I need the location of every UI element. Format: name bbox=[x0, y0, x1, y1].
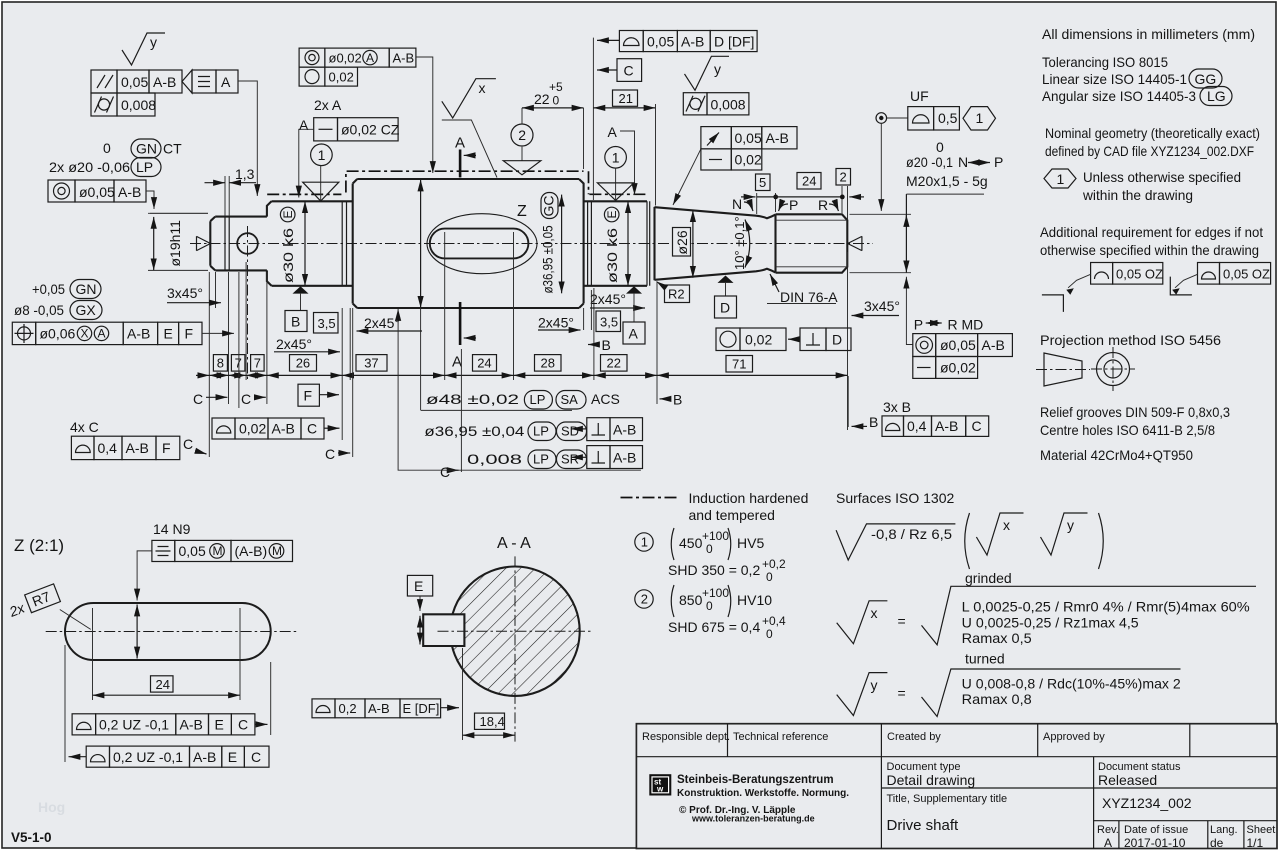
svg-text:U 0,0025-0,25 / Rz1max 4,5: U 0,0025-0,25 / Rz1max 4,5 bbox=[962, 615, 1139, 631]
svg-text:24: 24 bbox=[477, 356, 491, 371]
svg-text:A-B: A-B bbox=[935, 418, 958, 434]
svg-text:C: C bbox=[251, 749, 261, 765]
svg-text:GN: GN bbox=[76, 281, 97, 297]
svg-text:0,05: 0,05 bbox=[179, 543, 206, 559]
svg-text:V5-1-0: V5-1-0 bbox=[11, 830, 52, 845]
svg-text:2: 2 bbox=[518, 127, 526, 143]
svg-text:U 0,008-0,8 / Rdc(10%-45%)max: U 0,008-0,8 / Rdc(10%-45%)max 2 bbox=[962, 676, 1181, 692]
svg-text:Date of issue: Date of issue bbox=[1124, 824, 1188, 836]
svg-text:10° ±0,1°: 10° ±0,1° bbox=[732, 216, 747, 270]
svg-text:Technical reference: Technical reference bbox=[733, 731, 828, 743]
svg-text:Ramax 0,8: Ramax 0,8 bbox=[962, 691, 1032, 707]
datum D box bbox=[715, 296, 737, 318]
keyway notch bbox=[423, 614, 464, 646]
svg-text:GC: GC bbox=[541, 196, 557, 217]
hardened line over dia48 bbox=[346, 171, 589, 194]
svg-text:Konstruktion. Werkstoffe. Norm: Konstruktion. Werkstoffe. Normung. bbox=[677, 788, 849, 799]
svg-text:C: C bbox=[238, 717, 248, 733]
svg-text:B: B bbox=[291, 314, 300, 330]
taper cone edges bbox=[655, 207, 776, 280]
concentricity frame dia0,02 (A) A-B bbox=[299, 48, 325, 67]
svg-text:A: A bbox=[629, 326, 639, 342]
svg-text:A-B: A-B bbox=[193, 749, 216, 765]
dia19h11 dimension bbox=[148, 213, 208, 270]
extension lines above shaft (groove 1,3 / chamfer) bbox=[216, 176, 230, 308]
svg-text:ø19h11: ø19h11 bbox=[167, 220, 183, 267]
svg-text:ø0,06: ø0,06 bbox=[40, 326, 76, 342]
svg-text:E: E bbox=[281, 210, 295, 218]
leader from concentricity frame bbox=[146, 191, 154, 209]
svg-text:L 0,0025-0,25 / Rmr0 4% / Rm: L 0,0025-0,25 / Rmr0 4% / Rmr(5)4max 60% bbox=[962, 599, 1250, 615]
svg-text:ø48 ±0,02: ø48 ±0,02 bbox=[426, 391, 519, 407]
flatness frame 0,008 bbox=[91, 93, 117, 116]
svg-text:0,008: 0,008 bbox=[711, 97, 746, 113]
chain dim box 37 bbox=[356, 355, 387, 372]
svg-text:3,5: 3,5 bbox=[600, 315, 618, 330]
svg-text:0: 0 bbox=[706, 542, 713, 556]
svg-text:defined by CAD file XYZ1234_00: defined by CAD file XYZ1234_002.DXF bbox=[1045, 143, 1254, 159]
svg-text:XYZ1234_002: XYZ1234_002 bbox=[1102, 795, 1192, 811]
svg-text:LP: LP bbox=[530, 392, 546, 407]
svg-text:0: 0 bbox=[553, 94, 560, 108]
centre hole mark right bbox=[848, 236, 862, 251]
flag 1 right: circle bbox=[605, 147, 627, 169]
hardened zone dim 22 +5/0 bbox=[522, 107, 584, 109]
dia48 left face bbox=[353, 179, 358, 308]
svg-text:(A-B): (A-B) bbox=[235, 543, 268, 559]
svg-text:Material 42CrMo4+QT950: Material 42CrMo4+QT950 bbox=[1040, 447, 1193, 463]
dia30 left dim arrows bbox=[304, 201, 306, 285]
svg-text:A-B: A-B bbox=[766, 130, 789, 146]
profile frame 0,2 UZ -0,1 A-B E C (row 2) bbox=[86, 746, 109, 767]
chain dim box 71 bbox=[726, 356, 753, 373]
svg-text:GN: GN bbox=[136, 141, 157, 157]
dia48 dimension vertical bbox=[420, 180, 422, 308]
svg-text:7: 7 bbox=[235, 356, 242, 371]
svg-text:C: C bbox=[972, 418, 982, 434]
svg-text:LG: LG bbox=[1207, 88, 1226, 104]
shaft outline: dia19 segment bbox=[215, 217, 267, 271]
keyway slot detail outline bbox=[65, 603, 271, 660]
svg-text:C: C bbox=[183, 436, 193, 452]
leader from runout frame to taper bbox=[673, 149, 701, 205]
section A-A cut marks bbox=[459, 150, 462, 346]
svg-text:X: X bbox=[81, 327, 89, 341]
concentricity frame dia0,05 A-B bbox=[913, 334, 936, 357]
hexagon flag 1 bbox=[1044, 169, 1076, 188]
leader to slot bbox=[137, 551, 152, 601]
svg-text:ø36,95 ±0,05: ø36,95 ±0,05 bbox=[540, 225, 556, 293]
svg-text:C: C bbox=[307, 421, 317, 437]
surface profile frame 0,05 A-B D [DF] bbox=[597, 39, 619, 41]
perpendicularity frame A-B (2) bbox=[587, 446, 610, 469]
GC oval rotated bbox=[541, 193, 558, 219]
svg-text:E: E bbox=[414, 578, 423, 594]
thread minor lines bbox=[776, 220, 848, 267]
svg-text:0: 0 bbox=[706, 599, 713, 613]
svg-text:A-B: A-B bbox=[681, 34, 704, 50]
svg-text:P: P bbox=[789, 197, 798, 213]
dia30 right dim arrows bbox=[627, 201, 629, 285]
svg-text:y: y bbox=[150, 34, 157, 50]
chain dim box 7b bbox=[251, 355, 265, 372]
edge tolerance frame 2 bbox=[1170, 263, 1270, 295]
svg-text:Projection method ISO 5456: Projection method ISO 5456 bbox=[1040, 332, 1221, 348]
leader from datum tag to journal bbox=[238, 81, 257, 196]
svg-text:w: w bbox=[656, 785, 664, 794]
flag 1 legend bbox=[635, 533, 653, 551]
parallelism frame 0,05 A-B bbox=[91, 70, 117, 93]
svg-text:850: 850 bbox=[679, 592, 703, 608]
keyway slot bbox=[430, 229, 529, 259]
datum A right: filled triangle bbox=[626, 286, 642, 293]
svg-text:B: B bbox=[673, 392, 682, 408]
svg-text:ø30 k6: ø30 k6 bbox=[604, 228, 620, 283]
svg-text:Angular size ISO 14405-3: Angular size ISO 14405-3 bbox=[1042, 88, 1196, 104]
long extension line datum C face bbox=[592, 38, 594, 200]
svg-text:0,02: 0,02 bbox=[735, 152, 762, 168]
flag 1 left: leader and triangle bbox=[320, 166, 322, 200]
svg-text:D: D bbox=[720, 300, 730, 316]
svg-text:A: A bbox=[455, 135, 465, 152]
cross hole centerline bbox=[247, 226, 249, 380]
chain dim box 28 bbox=[535, 355, 562, 372]
svg-text:x: x bbox=[479, 80, 486, 96]
hardened line left journal bbox=[267, 193, 341, 195]
position frame dia0,06 (X)(A) A-B E F bbox=[12, 322, 35, 344]
svg-text:A-B: A-B bbox=[118, 184, 141, 200]
leader from frames to dia20 dimension bbox=[906, 277, 912, 345]
svg-text:2x A: 2x A bbox=[314, 97, 342, 113]
datum B left: filled triangle bbox=[293, 286, 309, 293]
svg-text:R MD: R MD bbox=[948, 317, 984, 333]
svg-text:0,4: 0,4 bbox=[907, 418, 927, 434]
relief groove at right shoulder bbox=[588, 201, 592, 285]
detail Z ellipse bbox=[427, 214, 537, 274]
arrow between frames bbox=[788, 338, 800, 340]
svg-text:0,008: 0,008 bbox=[121, 97, 156, 113]
svg-text:ø0,05: ø0,05 bbox=[940, 337, 976, 353]
svg-text:+5: +5 bbox=[549, 80, 563, 94]
svg-text:Centre holes ISO 6411-B 2,5/8: Centre holes ISO 6411-B 2,5/8 bbox=[1040, 422, 1215, 438]
svg-text:B: B bbox=[869, 414, 878, 430]
cross hole bbox=[237, 233, 258, 254]
svg-text:=: = bbox=[898, 685, 906, 701]
small symbol x bbox=[976, 513, 1023, 555]
svg-text:LP: LP bbox=[136, 159, 153, 175]
svg-text:21: 21 bbox=[619, 91, 633, 106]
svg-text:A-B: A-B bbox=[613, 450, 636, 466]
svg-text:0,02: 0,02 bbox=[239, 421, 266, 437]
y radical bbox=[922, 669, 1181, 717]
dia48 right face bbox=[579, 179, 584, 308]
Steinbeis logo bbox=[649, 774, 671, 795]
svg-text:Sheet: Sheet bbox=[1247, 824, 1276, 836]
R2 box bbox=[665, 285, 690, 303]
svg-text:0,02: 0,02 bbox=[745, 332, 772, 348]
svg-text:1: 1 bbox=[612, 149, 620, 165]
svg-text:A: A bbox=[98, 327, 106, 341]
svg-text:4x C: 4x C bbox=[70, 419, 99, 435]
svg-text:Title, Supplementary title: Title, Supplementary title bbox=[887, 793, 1008, 805]
dia20 dimension vertical bbox=[850, 214, 912, 272]
svg-text:SHD 350 = 0,2: SHD 350 = 0,2 bbox=[668, 562, 760, 578]
svg-text:1: 1 bbox=[976, 110, 984, 126]
svg-text:7: 7 bbox=[254, 356, 261, 371]
F datum box bbox=[298, 384, 319, 406]
24 dimension bbox=[93, 608, 241, 700]
svg-text:37: 37 bbox=[364, 356, 378, 371]
main centerline bbox=[190, 243, 873, 245]
svg-text:2x45°: 2x45° bbox=[590, 291, 626, 307]
roughness symbol x over dia48 bbox=[442, 79, 496, 118]
svg-text:P: P bbox=[914, 317, 923, 333]
shaft outline: left end face bbox=[210, 217, 215, 271]
svg-text:22: 22 bbox=[534, 91, 550, 107]
svg-text:A - A: A - A bbox=[497, 535, 531, 552]
svg-text:R: R bbox=[818, 197, 828, 213]
svg-text:0: 0 bbox=[936, 139, 944, 155]
svg-text:A: A bbox=[299, 117, 309, 133]
svg-text:+0,4: +0,4 bbox=[762, 614, 786, 628]
svg-text:SA: SA bbox=[561, 392, 579, 407]
svg-text:0,05: 0,05 bbox=[735, 130, 762, 146]
slot centerline bbox=[46, 631, 298, 633]
svg-text:1: 1 bbox=[1057, 171, 1065, 187]
relief groove 1,3 on dia19 bbox=[225, 217, 229, 271]
svg-text:0,008: 0,008 bbox=[467, 451, 522, 467]
svg-text:2x ø20 -0,06: 2x ø20 -0,06 bbox=[49, 159, 130, 175]
groove before taper bbox=[647, 201, 650, 285]
svg-text:Released: Released bbox=[1098, 772, 1157, 788]
svg-text:A-B: A-B bbox=[368, 701, 390, 716]
svg-text:R2: R2 bbox=[668, 287, 685, 302]
svg-text:Rev.: Rev. bbox=[1097, 824, 1119, 836]
svg-text:HV10: HV10 bbox=[737, 592, 772, 608]
perpendicularity frame A-B (1) bbox=[587, 418, 610, 441]
svg-text:ø0,02: ø0,02 bbox=[329, 50, 362, 65]
datum D triangle on taper bbox=[718, 276, 734, 283]
header row divider bbox=[636, 756, 1277, 758]
svg-text:ø0,02: ø0,02 bbox=[940, 360, 976, 376]
svg-text:14 N9: 14 N9 bbox=[153, 521, 191, 537]
svg-text:HV5: HV5 bbox=[737, 535, 764, 551]
svg-text:E: E bbox=[605, 210, 619, 218]
svg-text:A-B: A-B bbox=[126, 440, 149, 456]
svg-text:otherwise specified within the: otherwise specified within the drawing bbox=[1040, 242, 1259, 258]
profile frame 0,2 UZ -0,1 A-B E C (row 1) bbox=[72, 714, 96, 735]
svg-text:A-B: A-B bbox=[982, 337, 1005, 353]
svg-text:Responsible dept.: Responsible dept. bbox=[642, 731, 730, 743]
svg-text:Induction hardened: Induction hardened bbox=[689, 490, 809, 506]
slot width dim arrows bbox=[136, 605, 138, 659]
svg-text:ø0,05: ø0,05 bbox=[79, 184, 115, 200]
flag 2 legend bbox=[635, 590, 653, 608]
projection symbol: frustum bbox=[1044, 353, 1082, 386]
svg-text:Surfaces ISO 1302: Surfaces ISO 1302 bbox=[836, 490, 955, 506]
svg-text:LP: LP bbox=[533, 452, 549, 467]
svg-text:C: C bbox=[624, 63, 634, 79]
datum E box bbox=[407, 575, 432, 596]
svg-text:A: A bbox=[221, 74, 231, 90]
chain dim box 22 bbox=[601, 355, 628, 372]
svg-text:2017-01-10: 2017-01-10 bbox=[1124, 836, 1186, 850]
svg-text:E: E bbox=[215, 717, 224, 733]
straightness frame dia0,02 bbox=[913, 357, 936, 379]
svg-text:0: 0 bbox=[103, 140, 111, 156]
svg-text:22: 22 bbox=[607, 356, 621, 371]
svg-text:F: F bbox=[185, 326, 194, 342]
svg-text:C: C bbox=[325, 446, 335, 462]
svg-text:P: P bbox=[994, 154, 1003, 170]
svg-text:D [DF]: D [DF] bbox=[714, 34, 754, 50]
svg-text:CT: CT bbox=[163, 141, 182, 157]
flag 2: leader and triangle bbox=[521, 108, 523, 161]
leader to shoulder bbox=[324, 427, 340, 429]
right journal dia30 bbox=[584, 201, 647, 285]
y equals symbol bbox=[837, 673, 888, 716]
svg-text:DIN 76-A: DIN 76-A bbox=[780, 289, 838, 305]
svg-text:F: F bbox=[162, 440, 171, 456]
dia48 section top/bottom bbox=[357, 179, 579, 308]
perpendicularity frame D bbox=[800, 328, 826, 351]
bracket line bbox=[398, 309, 641, 470]
svg-text:M20x1,5 - 5g: M20x1,5 - 5g bbox=[906, 173, 988, 189]
chain dimension line segments bbox=[196, 374, 209, 376]
svg-text:3x45°: 3x45° bbox=[864, 298, 900, 314]
svg-text:ø30 k6: ø30 k6 bbox=[280, 228, 296, 283]
svg-text:0,2 UZ -0,1: 0,2 UZ -0,1 bbox=[99, 717, 169, 733]
svg-text:grinded: grinded bbox=[965, 570, 1012, 586]
dia36,95 GC dimension vertical bbox=[561, 195, 563, 294]
svg-text:5: 5 bbox=[759, 175, 766, 190]
datum C box bbox=[597, 69, 617, 71]
21 dimension bbox=[613, 90, 638, 106]
svg-text:de: de bbox=[1210, 836, 1224, 850]
svg-text:ø26: ø26 bbox=[674, 230, 690, 254]
svg-text:+100: +100 bbox=[702, 529, 729, 543]
chain dim box 8 bbox=[213, 355, 227, 372]
svg-text:A: A bbox=[366, 51, 374, 65]
svg-text:1: 1 bbox=[641, 535, 648, 550]
hexagon flag 1 bbox=[963, 107, 996, 130]
svg-text:2: 2 bbox=[840, 170, 847, 185]
svg-text:28: 28 bbox=[541, 356, 555, 371]
svg-text:ACS: ACS bbox=[591, 391, 620, 407]
section centerlines bbox=[438, 556, 593, 741]
svg-text:ø0,02 CZ: ø0,02 CZ bbox=[341, 122, 400, 138]
edge symbol 1 leader bbox=[1068, 274, 1091, 288]
svg-text:A-B: A-B bbox=[153, 74, 176, 90]
svg-text:E [DF]: E [DF] bbox=[403, 701, 440, 716]
svg-text:0,4: 0,4 bbox=[98, 440, 118, 456]
x radical bbox=[922, 586, 1257, 645]
svg-text:Z (2:1): Z (2:1) bbox=[14, 536, 64, 555]
datum tag A with straightness bbox=[182, 70, 192, 93]
svg-text:y: y bbox=[714, 61, 721, 77]
centre hole mark left bbox=[197, 236, 211, 251]
svg-text:0: 0 bbox=[766, 627, 773, 641]
roughness symbol y (middle) bbox=[685, 56, 730, 90]
dia26 dim on taper bbox=[692, 210, 694, 277]
svg-text:Additional requirement for edg: Additional requirement for edges if not bbox=[1040, 224, 1263, 240]
svg-text:C: C bbox=[440, 464, 450, 480]
svg-text:A-B: A-B bbox=[272, 421, 295, 437]
formula 1 bbox=[671, 528, 674, 560]
svg-text:ø8 -0,05: ø8 -0,05 bbox=[14, 302, 64, 318]
svg-text:Tolerancing ISO 8015: Tolerancing ISO 8015 bbox=[1042, 54, 1168, 70]
keyway width arrows bbox=[419, 616, 421, 645]
svg-text:All dimensions in millimeters: All dimensions in millimeters (mm) bbox=[1042, 26, 1255, 42]
profile frame 0,4 A-B F bbox=[71, 436, 94, 459]
svg-text:Lang.: Lang. bbox=[1210, 824, 1238, 836]
svg-text:within the drawing: within the drawing bbox=[1082, 187, 1193, 203]
profile frame 0,02 A-B C bbox=[212, 418, 235, 439]
left journal dia30 bbox=[272, 201, 353, 285]
svg-text:C: C bbox=[241, 391, 251, 407]
svg-text:+0,2: +0,2 bbox=[762, 557, 786, 571]
svg-text:SR: SR bbox=[561, 452, 579, 467]
symmetry frame 0,05 M (A-B) M bbox=[152, 540, 175, 561]
svg-text:y: y bbox=[871, 677, 878, 693]
svg-text:F: F bbox=[304, 388, 313, 404]
svg-text:E: E bbox=[164, 326, 173, 342]
chain dim box 26 bbox=[290, 355, 317, 372]
svg-text:+0,05: +0,05 bbox=[32, 281, 65, 297]
svg-text:B: B bbox=[602, 337, 611, 353]
svg-text:www.toleranzen-beratung.de: www.toleranzen-beratung.de bbox=[691, 814, 815, 824]
svg-text:Nominal geometry (theoreticall: Nominal geometry (theoretically exact) bbox=[1045, 125, 1260, 141]
svg-text:450: 450 bbox=[679, 535, 703, 551]
datum A box bbox=[623, 322, 645, 344]
svg-text:Unless otherwise specified: Unless otherwise specified bbox=[1083, 169, 1241, 185]
svg-text:x: x bbox=[1003, 517, 1010, 533]
svg-text:0,05 OZ: 0,05 OZ bbox=[1116, 267, 1163, 282]
svg-text:2x45°: 2x45° bbox=[364, 315, 400, 331]
svg-text:8: 8 bbox=[217, 356, 224, 371]
svg-text:0,05: 0,05 bbox=[121, 74, 148, 90]
header verticals bbox=[728, 724, 1190, 757]
parenthesis group bbox=[965, 513, 970, 569]
svg-text:Linear size ISO 14405-1: Linear size ISO 14405-1 bbox=[1042, 71, 1187, 87]
svg-text:Detail drawing: Detail drawing bbox=[887, 772, 976, 788]
svg-text:N: N bbox=[732, 196, 742, 212]
svg-text:0,2: 0,2 bbox=[339, 701, 357, 716]
projection symbol: circles bbox=[1097, 353, 1130, 386]
chain dim box 24 bbox=[473, 355, 497, 372]
legend dash-dot sample bbox=[621, 497, 679, 499]
svg-text:Created by: Created by bbox=[887, 731, 941, 743]
flag 1 left: circle bbox=[311, 144, 333, 166]
svg-text:-0,8 / Rz 6,5: -0,8 / Rz 6,5 bbox=[871, 526, 952, 542]
concentricity frame dia0,05 A-B bbox=[48, 180, 75, 202]
thread section M20 bbox=[776, 214, 848, 272]
svg-text:+100: +100 bbox=[702, 586, 729, 600]
dim 24 thread bbox=[797, 173, 821, 190]
svg-text:71: 71 bbox=[732, 357, 746, 372]
step face dia19 to dia30 bbox=[267, 201, 272, 285]
svg-text:ø36,95 ±0,04: ø36,95 ±0,04 bbox=[424, 423, 524, 439]
svg-text:0,02: 0,02 bbox=[329, 69, 354, 84]
relief groove at left shoulder bbox=[342, 201, 346, 285]
dim 2 thread end bbox=[836, 169, 851, 186]
svg-text:Drive shaft: Drive shaft bbox=[887, 817, 960, 834]
datum B box bbox=[285, 311, 307, 332]
svg-text:3x45°: 3x45° bbox=[167, 285, 203, 301]
svg-text:A-B: A-B bbox=[613, 422, 636, 438]
svg-text:ø20 -0,1: ø20 -0,1 bbox=[906, 154, 953, 170]
svg-text:UF: UF bbox=[910, 88, 929, 104]
